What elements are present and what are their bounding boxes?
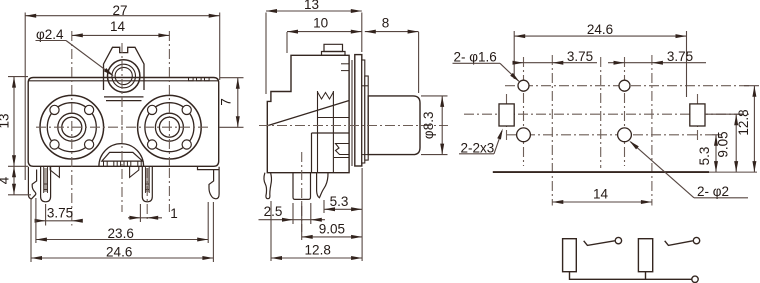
svg-text:2.5: 2.5 bbox=[264, 204, 283, 219]
svg-text:2- φ2: 2- φ2 bbox=[697, 184, 729, 199]
svg-text:5.3: 5.3 bbox=[697, 147, 712, 166]
svg-text:3.75: 3.75 bbox=[667, 49, 693, 64]
svg-text:14: 14 bbox=[593, 186, 609, 201]
svg-text:8: 8 bbox=[382, 16, 390, 31]
svg-text:2- φ1.6: 2- φ1.6 bbox=[454, 50, 497, 65]
svg-text:13: 13 bbox=[0, 113, 12, 128]
svg-text:3.75: 3.75 bbox=[567, 49, 593, 64]
svg-text:12.8: 12.8 bbox=[305, 243, 331, 258]
svg-text:φ2.4: φ2.4 bbox=[36, 27, 64, 42]
svg-text:9.05: 9.05 bbox=[716, 131, 731, 157]
svg-text:24.6: 24.6 bbox=[106, 244, 132, 259]
svg-text:27: 27 bbox=[112, 3, 127, 18]
svg-text:5.3: 5.3 bbox=[330, 194, 349, 209]
svg-text:13: 13 bbox=[304, 0, 319, 12]
svg-text:4: 4 bbox=[0, 176, 12, 184]
svg-text:10: 10 bbox=[313, 16, 328, 31]
svg-text:12.8: 12.8 bbox=[736, 109, 751, 135]
svg-text:23.6: 23.6 bbox=[108, 226, 134, 241]
svg-text:φ8.3: φ8.3 bbox=[421, 112, 436, 140]
svg-text:9.05: 9.05 bbox=[319, 221, 345, 236]
svg-text:1: 1 bbox=[170, 206, 178, 221]
svg-text:7: 7 bbox=[219, 98, 234, 106]
svg-text:14: 14 bbox=[110, 19, 126, 34]
svg-text:24.6: 24.6 bbox=[587, 22, 613, 37]
svg-text:2-2x3: 2-2x3 bbox=[461, 140, 495, 155]
svg-text:3.75: 3.75 bbox=[47, 205, 73, 220]
